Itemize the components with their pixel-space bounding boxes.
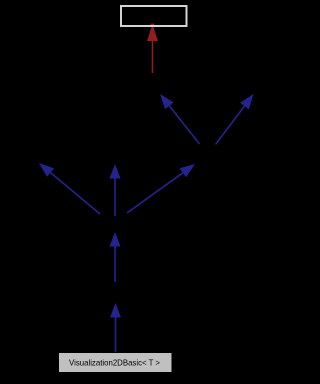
node Visualization2DBasic< T > (current class, gray filled) — [59, 353, 172, 372]
arrow blue up-right (row3-right node to row2-right node) — [216, 94, 254, 145]
node top (undocumented base class, gray border, empty) — [121, 6, 187, 26]
arrow blue fan-right (row4 node to row3-right node) — [127, 164, 195, 213]
arrow red (private inheritance, row2-left node to top node) — [147, 24, 158, 73]
svg-text:Visualization2DBasic< T >: Visualization2DBasic< T > — [69, 358, 160, 368]
arrow blue mid-upper (row5 node to row4 node) — [110, 232, 121, 282]
arrow blue fan-mid (row4 node to row3-mid node) — [110, 164, 121, 216]
arrow blue fan-left (row4 node to row3-left node) — [39, 163, 100, 214]
arrow blue mid-lower (bottom node to row5 node) — [110, 303, 121, 352]
arrow blue up-left (row3-right node to row2-left node) — [160, 94, 200, 144]
